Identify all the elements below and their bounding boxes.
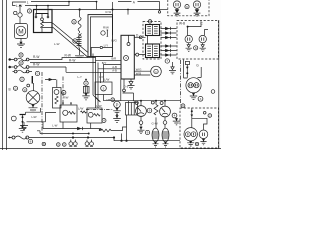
arrow row 1 — [161, 27, 177, 30]
turn bulb left — [185, 35, 192, 42]
svg-text:L-Y: L-Y — [78, 75, 82, 79]
label L-W — [16, 3, 26, 8]
label circle lb — [111, 98, 115, 102]
svg-text:2: 2 — [209, 114, 211, 118]
arrow row 3 — [161, 36, 177, 39]
svg-text:9: 9 — [147, 131, 149, 135]
wire box5 — [103, 95, 105, 101]
bottom switch — [8, 136, 114, 144]
svg-text:6: 6 — [149, 20, 151, 24]
hazard box 5 — [95, 82, 112, 95]
tail terminal circle — [203, 112, 206, 115]
label circle 8w — [62, 91, 66, 95]
ground flasher mid — [113, 112, 121, 123]
indicator lamp big — [26, 91, 40, 105]
wire y140 right — [114, 140, 180, 142]
label resistor mark — [151, 101, 154, 104]
sender unit tall rect — [53, 88, 62, 109]
wire bundle vertical 5 — [104, 64, 122, 82]
horn circle — [151, 66, 162, 77]
label circle 9b — [145, 130, 149, 134]
wire bus y100 — [93, 95, 180, 102]
wire riser x121 — [121, 134, 123, 141]
node jog2 — [96, 1, 98, 3]
ground dimmer — [19, 125, 26, 132]
svg-text:8: 8 — [20, 53, 22, 57]
label circle bottom 3 — [63, 143, 67, 147]
terminal O right — [134, 53, 138, 56]
label circle 13 — [198, 96, 203, 101]
separator dash line left — [41, 72, 43, 135]
label circle 14a — [135, 101, 138, 104]
fuse box dashed — [143, 22, 161, 60]
label circle 14 — [172, 113, 177, 118]
motor M1 wiper — [15, 24, 28, 39]
ground big lamp — [29, 108, 38, 112]
svg-text:L/W: L/W — [32, 115, 37, 119]
node y137 end — [113, 136, 115, 138]
svg-text:L: L — [27, 1, 29, 5]
wire top bus L — [13, 2, 160, 11]
svg-text:0: 0 — [21, 77, 23, 81]
node stop 2 — [186, 72, 188, 74]
border bottom line — [0, 148, 221, 150]
svg-text:L/W: L/W — [78, 106, 84, 110]
oval connector 2 — [162, 128, 169, 142]
combination switch outer box — [88, 15, 113, 57]
label circle 10a — [35, 71, 39, 75]
svg-text:4: 4 — [103, 119, 105, 123]
terminal E mark — [185, 61, 189, 64]
front bulb left — [173, 1, 180, 8]
svg-text:B: B — [9, 87, 11, 91]
resistor vertical mid — [154, 101, 158, 128]
wire top bus L-W — [13, 2, 70, 6]
arrow row 2 — [161, 31, 177, 34]
tail bulb big — [184, 128, 197, 141]
wire x183.5 riser — [184, 60, 188, 79]
label circle front — [185, 5, 189, 9]
separator dash mid — [86, 108, 113, 110]
svg-text:9: 9 — [74, 39, 76, 43]
svg-text:L/B: L/B — [106, 98, 110, 102]
wire G drop — [198, 67, 202, 78]
svg-text:6: 6 — [195, 46, 197, 50]
node turn feed — [187, 26, 189, 28]
flasher box 2 — [87, 108, 102, 123]
svg-text:3: 3 — [200, 97, 202, 101]
node y140 b — [125, 140, 127, 142]
node zigzag left — [99, 129, 101, 131]
label gauge2 mark — [160, 102, 163, 105]
svg-text:R/G: R/G — [112, 39, 118, 43]
node relay t1 — [36, 5, 38, 7]
svg-text:8: 8 — [196, 142, 198, 146]
label circle right — [211, 90, 215, 94]
separator dash line right — [180, 60, 182, 107]
tail bulb small — [199, 130, 208, 139]
svg-text:P: P — [116, 102, 119, 107]
ground left mid — [20, 122, 28, 130]
node bulbs 2 — [87, 136, 89, 138]
svg-text:R-W: R-W — [106, 10, 112, 14]
stop lamp bulb — [186, 78, 201, 93]
flasher stubs — [63, 122, 91, 129]
svg-text:7: 7 — [166, 59, 168, 63]
svg-text:R/W: R/W — [103, 25, 109, 29]
label circle 4 — [102, 119, 106, 123]
oval connector 1 — [152, 128, 159, 142]
node bulbs 1 — [72, 136, 74, 138]
wire row D — [66, 67, 101, 72]
small bulb pair 1 — [69, 140, 77, 147]
arrow row 4 — [161, 44, 177, 47]
fuse connector block 1 — [146, 25, 160, 36]
node g1 — [140, 100, 142, 102]
wire tail stems — [192, 108, 207, 130]
wire bundle vertical 1 — [92, 54, 94, 96]
node g3 — [155, 100, 157, 102]
terminal D — [134, 36, 141, 38]
wire diagonal 1 — [53, 23, 89, 53]
wire horn — [135, 71, 151, 75]
connector below gauge1 — [139, 116, 143, 124]
ground arrow triangles — [19, 42, 205, 145]
ground right of ignition box — [128, 79, 135, 89]
wire into front box — [160, 9, 168, 11]
svg-text:8: 8 — [85, 81, 87, 85]
node g2 — [164, 100, 166, 102]
svg-text:G-W: G-W — [152, 122, 158, 126]
wire ignition bottom — [121, 79, 134, 101]
svg-text:L/Y: L/Y — [100, 75, 104, 79]
capacitor bar — [31, 76, 33, 84]
wire dimmer right — [26, 108, 57, 122]
svg-text:0: 0 — [15, 86, 17, 90]
wire bundle vertical 3 — [98, 63, 121, 109]
turn lamp dashed box — [177, 21, 219, 60]
relay terminals — [37, 6, 49, 14]
wire stop lamp stem — [186, 65, 188, 78]
node squiggle top — [79, 8, 81, 10]
label circle bottom 1 — [42, 142, 45, 145]
svg-text:3: 3 — [125, 56, 127, 60]
ground gauge1 — [138, 124, 145, 133]
svg-text:R-W: R-W — [65, 54, 71, 58]
wire y128.5 with arrow — [43, 122, 101, 130]
svg-text:8: 8 — [63, 91, 65, 95]
label circle bottom 2 — [57, 143, 61, 147]
turn bulb right — [199, 35, 206, 42]
front bulb right — [193, 1, 200, 8]
ground tail big — [187, 141, 194, 146]
ground stop lamp — [190, 93, 197, 100]
svg-text:4: 4 — [174, 114, 176, 118]
label circle tail bottom — [195, 142, 198, 145]
ground mid right — [169, 62, 176, 74]
svg-text:5: 5 — [103, 86, 105, 90]
label circle tailbox — [181, 104, 185, 108]
node y133 a — [72, 133, 74, 135]
wire LY inside box — [91, 48, 112, 57]
wire gauge1 stem — [140, 101, 142, 106]
svg-text:R-W: R-W — [69, 59, 75, 63]
ground tail small — [200, 139, 206, 145]
wire fuse feed D — [139, 37, 146, 54]
component squiggle cable — [72, 10, 82, 37]
wire gauge2 stem — [164, 101, 166, 106]
wire y133.5 — [37, 131, 89, 134]
node bus junction — [112, 9, 114, 11]
ground below P — [113, 108, 121, 115]
arrow row 5 — [161, 49, 177, 52]
svg-text:O-y: O-y — [124, 84, 129, 88]
fuse label circle — [148, 20, 152, 24]
wire riser x128 — [127, 10, 129, 15]
label circle 9d — [147, 108, 152, 113]
gauge 2 circle — [160, 106, 171, 117]
svg-text:L/W: L/W — [97, 104, 102, 108]
switch row A — [9, 53, 97, 61]
wire row C — [30, 62, 96, 64]
svg-text:R-W: R-W — [33, 62, 39, 66]
svg-text:3: 3 — [112, 98, 114, 102]
svg-text:2: 2 — [29, 9, 31, 13]
dimmer switch cluster — [11, 115, 25, 126]
node motor tap — [19, 5, 21, 7]
wire riser x112 — [112, 2, 114, 35]
svg-text:L/W: L/W — [104, 77, 110, 81]
connector circle turnswitch — [27, 84, 30, 87]
border left inner line — [6, 0, 8, 150]
label circle 7 — [165, 59, 169, 63]
gauge 1 circle — [136, 106, 147, 117]
fuse connector block 2 — [146, 36, 160, 58]
svg-text:9: 9 — [73, 20, 75, 24]
node relay t2 — [47, 5, 49, 7]
arrow row 6 — [161, 53, 177, 56]
connector below gauge2 — [163, 117, 167, 128]
label circle tail — [208, 114, 212, 118]
svg-text:6: 6 — [182, 104, 184, 108]
svg-text:L-W: L-W — [52, 123, 57, 127]
switch row B — [9, 61, 67, 69]
arrow into connector left — [45, 78, 56, 80]
label circle 10b — [20, 77, 24, 81]
svg-text:R-W: R-W — [33, 55, 39, 59]
tail stem arrow — [191, 115, 194, 117]
svg-text:0: 0 — [37, 72, 39, 76]
svg-text:L-W: L-W — [54, 42, 60, 46]
ground oval1 — [153, 142, 159, 147]
ground below motor — [17, 39, 25, 48]
label circle 10c — [23, 88, 27, 92]
front lamp dashed box — [168, 0, 209, 16]
wire bundle vertical 2 — [96, 58, 122, 109]
switch contact inside box — [101, 30, 108, 36]
ground turn bulb left — [186, 43, 192, 52]
separator dash line left 2 — [62, 77, 64, 106]
svg-text:5: 5 — [57, 143, 59, 147]
wire arrow to sender — [56, 80, 58, 88]
border left outer line — [2, 0, 4, 150]
svg-text:L/Y: L/Y — [104, 43, 109, 47]
ground turn bulb right — [200, 43, 206, 52]
label circle turn — [194, 46, 198, 50]
component coil stack 9 — [73, 36, 84, 57]
wire riser x126 — [126, 115, 128, 141]
node tail — [191, 110, 193, 112]
ground oval2 — [163, 142, 169, 147]
label circle 10d — [13, 86, 17, 90]
small coil mark between boxes — [81, 111, 87, 113]
svg-text:M: M — [18, 28, 23, 35]
connector circle on motor wire — [14, 6, 23, 24]
node jog1 — [68, 1, 70, 3]
svg-text:5: 5 — [63, 143, 65, 147]
wire horizontal y9.5 — [52, 2, 160, 10]
wire lamp stem — [32, 83, 35, 108]
resistor y131 — [101, 127, 127, 132]
stem arrow — [186, 67, 189, 69]
svg-text:W-B: W-B — [179, 21, 185, 25]
svg-text:8: 8 — [43, 142, 45, 146]
wire bundle vertical 4 — [101, 72, 122, 83]
ground front bulb left — [174, 8, 181, 16]
ground front bulb right — [194, 8, 201, 16]
ground gauge2 right — [173, 118, 180, 125]
svg-text:8: 8 — [20, 61, 22, 65]
svg-text:0: 0 — [24, 88, 26, 92]
wire diagonal 2 — [53, 27, 89, 57]
small bulb pair 2 — [85, 140, 93, 147]
border right line — [218, 20, 220, 149]
element 8 connector — [82, 79, 89, 100]
flasher box 1 — [60, 102, 77, 122]
connector box mid — [126, 101, 138, 115]
tail lamp dashed box — [180, 108, 219, 148]
svg-text:R/W: R/W — [63, 95, 69, 99]
turn switch row y71 — [13, 70, 33, 73]
node y140 a — [120, 140, 122, 142]
circled number digits — [15, 5, 211, 147]
relay box R2 — [27, 9, 52, 33]
ignition switch tall box — [121, 35, 134, 79]
node y133 b — [88, 133, 90, 135]
wire turn box top — [188, 21, 208, 35]
svg-text:9: 9 — [149, 109, 151, 113]
svg-text:6: 6 — [186, 5, 188, 9]
component P circle — [114, 101, 121, 108]
svg-text:8: 8 — [30, 140, 32, 144]
